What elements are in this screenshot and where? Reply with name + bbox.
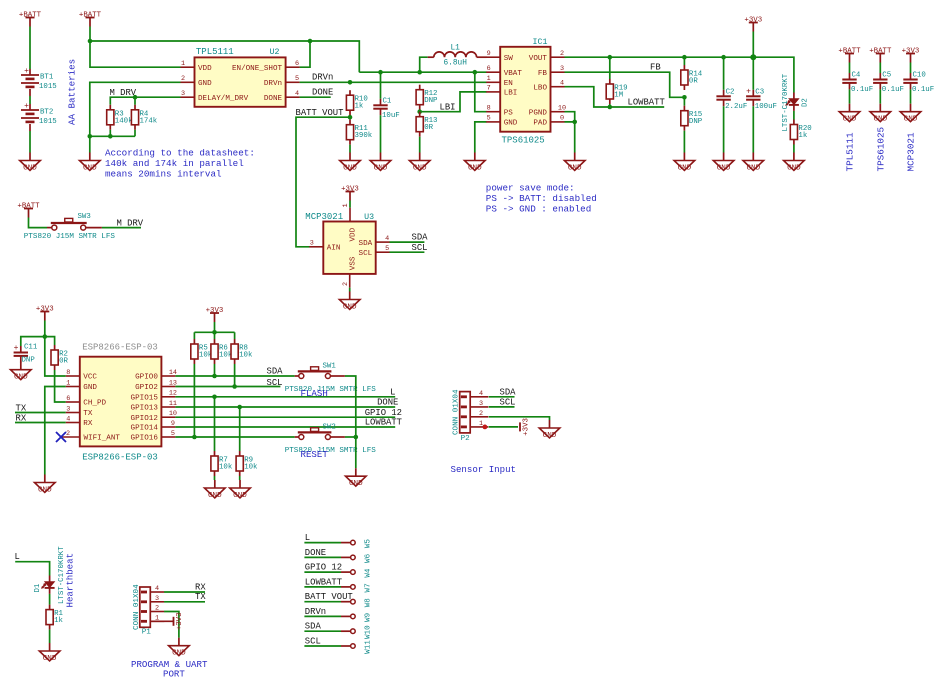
resistor R7 10k pulldown bbox=[214, 397, 216, 451]
svg-text:8: 8 bbox=[66, 369, 70, 377]
svg-text:GND: GND bbox=[717, 164, 731, 172]
svg-text:TPS61025: TPS61025 bbox=[502, 136, 545, 146]
svg-text:3: 3 bbox=[155, 595, 159, 603]
svg-text:FB: FB bbox=[650, 62, 661, 72]
ground (battery) bbox=[29, 153, 31, 161]
wire C5 to ground bbox=[879, 89, 881, 103]
svg-text:LOWBATT: LOWBATT bbox=[365, 418, 402, 428]
ground (C1) bbox=[380, 153, 382, 161]
pin 8 VCC bbox=[66, 375, 80, 377]
svg-text:GPIO 12: GPIO 12 bbox=[365, 408, 402, 418]
svg-text:BT2: BT2 bbox=[40, 109, 53, 117]
svg-text:GPIO2: GPIO2 bbox=[135, 384, 158, 392]
wire BATT_VOUT to MCP3021 AIN bbox=[296, 117, 350, 247]
svg-text:3: 3 bbox=[310, 240, 314, 248]
svg-text:M DRV: M DRV bbox=[110, 88, 137, 98]
wire C1 to ground bbox=[380, 115, 382, 152]
svg-text:0: 0 bbox=[560, 115, 564, 123]
wire VOUT +3V3 rail to LED D2 bbox=[565, 57, 794, 92]
resistor R11 390k bbox=[349, 120, 351, 125]
svg-text:CONN 01X04: CONN 01X04 bbox=[453, 389, 461, 435]
wire R19 bottom bbox=[609, 104, 611, 107]
svg-text:U2: U2 bbox=[270, 48, 280, 57]
svg-text:SW: SW bbox=[504, 55, 514, 63]
wire P1 pin1 to +3V3 bbox=[150, 620, 173, 622]
wire R1 to ground bbox=[49, 630, 51, 643]
power flag +3V3 (P2, rotated) bbox=[519, 422, 521, 431]
pin 6 EN/ONE_SHOT bbox=[286, 66, 300, 68]
svg-text:GND: GND bbox=[343, 303, 357, 311]
svg-text:0R: 0R bbox=[59, 358, 68, 366]
svg-text:GND: GND bbox=[843, 116, 857, 124]
wire C2 to ground bbox=[723, 106, 725, 152]
svg-text:U3: U3 bbox=[364, 213, 374, 222]
pin 6 CH_PD bbox=[66, 401, 80, 403]
svg-text:DONE: DONE bbox=[305, 548, 326, 558]
pin 3 FB bbox=[551, 71, 565, 73]
svg-text:SCL: SCL bbox=[412, 243, 428, 253]
svg-text:GND: GND bbox=[83, 164, 97, 172]
svg-text:GND: GND bbox=[504, 120, 518, 128]
svg-text:PAD: PAD bbox=[533, 120, 547, 128]
switch SW2 RESET bbox=[295, 436, 299, 438]
svg-text:1: 1 bbox=[479, 420, 483, 428]
svg-text:GND: GND bbox=[233, 492, 247, 500]
svg-text:L: L bbox=[305, 533, 310, 543]
capacitor C1 10uF bbox=[380, 72, 382, 99]
pin 4 RX bbox=[66, 422, 80, 424]
svg-text:GPIO14: GPIO14 bbox=[131, 425, 159, 433]
svg-text:GND: GND bbox=[678, 164, 692, 172]
svg-text:RX: RX bbox=[83, 420, 93, 428]
wire GPIO12 net bbox=[175, 416, 395, 418]
resistor R8 10k bbox=[234, 332, 236, 339]
ground (C5) bbox=[879, 104, 881, 112]
svg-text:DRVn: DRVn bbox=[305, 607, 326, 617]
svg-text:GND: GND bbox=[374, 164, 388, 172]
svg-text:LOWBATT: LOWBATT bbox=[305, 577, 342, 587]
resistor R12 DNP bbox=[419, 85, 421, 90]
wire L net to D1 bbox=[15, 562, 49, 576]
connector P1 CONN_01X04 bbox=[140, 587, 151, 627]
svg-text:Hearthbeat: Hearthbeat bbox=[65, 553, 76, 608]
svg-text:174k: 174k bbox=[140, 117, 158, 125]
wire C4 to ground bbox=[849, 89, 851, 103]
resistor R19 1M bbox=[609, 57, 611, 79]
svg-text:5: 5 bbox=[385, 245, 389, 253]
svg-text:1k: 1k bbox=[355, 103, 364, 111]
wire TX bbox=[15, 412, 66, 414]
svg-text:GPIO 12: GPIO 12 bbox=[305, 563, 342, 573]
wire P1 pin3 TX bbox=[164, 601, 205, 603]
ground (C11) bbox=[20, 362, 22, 370]
svg-text:ESP8266-ESP-03: ESP8266-ESP-03 bbox=[82, 342, 158, 352]
svg-text:W7: W7 bbox=[365, 583, 373, 592]
wire LBO LOWBATT net bbox=[565, 87, 665, 107]
svg-text:GND: GND bbox=[208, 492, 222, 500]
svg-text:L: L bbox=[390, 387, 395, 397]
svg-text:10uF: 10uF bbox=[382, 112, 400, 120]
svg-text:10k: 10k bbox=[219, 464, 233, 472]
wire R2 to CH_PD bbox=[55, 370, 66, 402]
svg-text:P2: P2 bbox=[461, 435, 471, 443]
svg-text:4: 4 bbox=[385, 235, 389, 243]
resistor R15 DNP bbox=[683, 97, 685, 105]
wire to ground (TPL GND) bbox=[89, 136, 91, 152]
pin 6 VBAT bbox=[486, 71, 500, 73]
inductor L1 6.8uH bbox=[428, 56, 434, 58]
svg-text:1015: 1015 bbox=[39, 83, 57, 91]
resistor R3 140k bbox=[109, 105, 111, 110]
svg-text:LOWBATT: LOWBATT bbox=[628, 98, 665, 108]
svg-text:7: 7 bbox=[487, 85, 491, 93]
svg-text:6.8uH: 6.8uH bbox=[444, 60, 468, 68]
junction PS riser bbox=[473, 70, 478, 75]
svg-text:MCP3021: MCP3021 bbox=[906, 132, 917, 171]
battery BT1 bbox=[29, 69, 31, 75]
svg-text:VDD: VDD bbox=[349, 227, 357, 241]
svg-text:GND: GND bbox=[172, 650, 186, 658]
ground (P1) bbox=[178, 638, 180, 646]
svg-text:W11: W11 bbox=[365, 640, 373, 654]
capacitor C11 DNP polarized bbox=[20, 346, 22, 353]
wire R8 to GPIO2 bbox=[234, 364, 236, 387]
wire R15 to ground bbox=[683, 131, 685, 153]
IC U1 TPS61025 body bbox=[500, 47, 550, 132]
wire LBI net bbox=[420, 92, 487, 112]
ground (TPL5111) bbox=[89, 153, 91, 161]
svg-text:GND: GND bbox=[83, 384, 97, 392]
svg-text:9: 9 bbox=[171, 420, 175, 428]
svg-text:PORT: PORT bbox=[163, 668, 185, 679]
svg-text:DONE: DONE bbox=[312, 87, 333, 97]
svg-text:8: 8 bbox=[487, 105, 491, 113]
ground (D1) bbox=[49, 643, 51, 651]
pin 4 DONE bbox=[286, 96, 300, 98]
pin 5 SCL bbox=[376, 251, 390, 253]
ground (C4) bbox=[849, 104, 851, 112]
svg-text:TX: TX bbox=[83, 410, 93, 418]
svg-text:Sensor Input: Sensor Input bbox=[451, 464, 517, 475]
svg-text:1: 1 bbox=[66, 379, 70, 387]
resistor R9 10k pulldown bbox=[239, 407, 241, 451]
resistor R4 174k bbox=[134, 105, 136, 110]
wire D1 to R1 bbox=[49, 594, 51, 605]
pin 1 EN bbox=[486, 81, 500, 83]
svg-text:EN/ONE_SHOT: EN/ONE_SHOT bbox=[232, 65, 283, 73]
svg-text:means 20mins interval: means 20mins interval bbox=[105, 169, 222, 180]
svg-text:GND: GND bbox=[413, 164, 427, 172]
wire P2 pin1 to +3V3 bbox=[489, 426, 518, 428]
svg-text:TPL5111: TPL5111 bbox=[196, 47, 234, 57]
resistor R2 0R bbox=[54, 345, 56, 350]
ground (C2) bbox=[723, 153, 725, 161]
IC U3 MCP3021 body bbox=[349, 208, 351, 222]
wire R4 top bbox=[134, 97, 136, 105]
svg-text:LBO: LBO bbox=[533, 84, 547, 92]
svg-text:GPIO15: GPIO15 bbox=[131, 395, 159, 403]
wire R12 bottom bbox=[419, 110, 421, 112]
svg-text:AA Batteries: AA Batteries bbox=[67, 59, 78, 125]
junction EN/ONE_SHOT on rail bbox=[308, 39, 313, 44]
junction R19/LOWBATT bbox=[608, 105, 613, 110]
svg-text:C4: C4 bbox=[852, 72, 861, 80]
wire R5 to GPIO16 bbox=[193, 364, 195, 437]
svg-text:SDA: SDA bbox=[267, 366, 284, 376]
svg-text:PS -> GND : enabled: PS -> GND : enabled bbox=[486, 204, 591, 215]
svg-text:5: 5 bbox=[295, 75, 299, 83]
junction R12/R13/LBI bbox=[417, 109, 422, 114]
wire DONE stub bbox=[300, 96, 331, 98]
wire +3V3 to pull-up rail bbox=[214, 322, 216, 332]
junction PAD bbox=[572, 120, 577, 125]
wire R6 to GPIO0 bbox=[214, 364, 216, 376]
junction L1/R12 bbox=[417, 70, 422, 75]
svg-text:ESP8266-ESP-03: ESP8266-ESP-03 bbox=[82, 452, 158, 462]
svg-text:2: 2 bbox=[560, 50, 564, 58]
svg-text:RX: RX bbox=[195, 582, 206, 592]
wire SCL row GPIO2 bbox=[175, 386, 280, 388]
resistor R5 10k bbox=[193, 332, 195, 339]
ground (R20) bbox=[793, 153, 795, 161]
svg-text:GND: GND bbox=[23, 164, 37, 172]
svg-text:4: 4 bbox=[560, 80, 564, 88]
wire riser to ground bbox=[355, 437, 357, 468]
ground (U3) bbox=[349, 292, 351, 300]
wire +3V3 to VCC bbox=[45, 337, 66, 376]
wire SW1 to GND riser bbox=[345, 376, 356, 437]
svg-text:4: 4 bbox=[66, 415, 70, 423]
svg-text:SW3: SW3 bbox=[78, 213, 91, 221]
junction R7/GPIO15 bbox=[212, 395, 217, 400]
wire FB net bbox=[565, 72, 685, 97]
wire R4 bottom to rail bbox=[134, 130, 136, 137]
svg-text:DELAY/M_DRV: DELAY/M_DRV bbox=[198, 95, 249, 103]
svg-text:GND: GND bbox=[43, 655, 57, 663]
svg-text:+: + bbox=[746, 88, 751, 97]
wire +3V3 flag to rail bbox=[752, 32, 754, 58]
svg-text:0.1uF: 0.1uF bbox=[882, 86, 904, 94]
wire R10 to R11 junction bbox=[349, 115, 351, 120]
wire +BATT to battery BT1 bbox=[29, 27, 31, 70]
junction R14/R15/FB bbox=[682, 95, 687, 100]
wire P2 pin4 SDA bbox=[489, 396, 515, 398]
svg-text:TX: TX bbox=[195, 592, 206, 602]
wire R9 to ground bbox=[239, 476, 241, 480]
wire GND pin5 to ground bbox=[475, 122, 487, 153]
svg-text:W5: W5 bbox=[365, 539, 373, 549]
ground (C10) bbox=[910, 104, 912, 112]
svg-text:C10: C10 bbox=[913, 72, 926, 80]
switch SW1 FLASH bbox=[295, 375, 299, 377]
wire R11 to ground bbox=[349, 145, 351, 153]
ground (PGND) bbox=[574, 153, 576, 161]
svg-text:GND: GND bbox=[38, 486, 52, 494]
junction R19 top bbox=[608, 55, 613, 60]
wire D2 to R20 bbox=[793, 111, 795, 120]
svg-text:140k and 174k in parallel: 140k and 174k in parallel bbox=[105, 158, 244, 169]
junction pull-up rail bbox=[212, 330, 217, 335]
capacitor C4 0.1uF bbox=[849, 73, 851, 80]
svg-text:DNP: DNP bbox=[689, 118, 703, 126]
switch SW3 PTS820 bbox=[47, 227, 52, 229]
junction C2 top bbox=[721, 55, 726, 60]
resistor R14 0R bbox=[683, 57, 685, 65]
junction R9/GPIO13 bbox=[237, 405, 242, 410]
ground (R11) bbox=[349, 153, 351, 161]
junction P2 pin1 bbox=[483, 425, 488, 430]
svg-text:power save mode:: power save mode: bbox=[486, 183, 575, 194]
svg-text:0R: 0R bbox=[689, 78, 698, 86]
wire GPIO16 row to SW2 bbox=[175, 436, 294, 438]
svg-text:3: 3 bbox=[66, 405, 70, 413]
svg-text:1: 1 bbox=[342, 203, 350, 207]
wire BT2 to ground bbox=[29, 131, 31, 153]
wire P1 pin4 RX bbox=[164, 591, 205, 593]
svg-text:PTS820 J15M SMTR LFS: PTS820 J15M SMTR LFS bbox=[285, 386, 377, 394]
svg-text:C1: C1 bbox=[383, 98, 392, 106]
svg-text:0.1uF: 0.1uF bbox=[851, 86, 873, 94]
svg-text:6: 6 bbox=[66, 395, 70, 403]
svg-text:+: + bbox=[24, 67, 29, 76]
wire +3V3 down bbox=[44, 321, 46, 337]
pin 3 AIN bbox=[309, 246, 323, 248]
resistor R20 1k bbox=[793, 120, 795, 125]
ground (R9) bbox=[239, 480, 241, 488]
junction R8/GPIO2 bbox=[232, 384, 237, 389]
svg-text:PTS820 J15M SMTR LFS: PTS820 J15M SMTR LFS bbox=[285, 447, 377, 455]
svg-text:4: 4 bbox=[155, 585, 159, 593]
junction +BATT rail / VDD bbox=[88, 39, 93, 44]
svg-text:RESET: RESET bbox=[301, 449, 329, 460]
svg-text:GND: GND bbox=[198, 80, 212, 88]
svg-text:GND: GND bbox=[746, 164, 760, 172]
svg-text:DONE: DONE bbox=[377, 398, 398, 408]
pin 3 TX bbox=[66, 412, 80, 414]
wire P2 pin2 to ground bbox=[489, 417, 550, 420]
svg-text:GND: GND bbox=[349, 480, 363, 488]
ground (SW1/SW2) bbox=[355, 468, 357, 476]
wire DELAY/M_DRV pin3 to R3 R4 bbox=[110, 97, 180, 105]
svg-text:5: 5 bbox=[487, 115, 491, 123]
svg-text:SDA: SDA bbox=[500, 387, 517, 397]
svg-text:390k: 390k bbox=[355, 132, 373, 140]
wire to R2 bbox=[45, 337, 55, 345]
wire +3V3 to C10 bbox=[910, 63, 912, 74]
wire +BATT to C4 bbox=[849, 63, 851, 74]
resistor R10 1k bbox=[349, 90, 351, 95]
ground (R13) bbox=[419, 153, 421, 161]
capacitor C10 0.1uF bbox=[910, 73, 912, 80]
svg-text:6: 6 bbox=[487, 65, 491, 73]
svg-text:C5: C5 bbox=[882, 72, 891, 80]
capacitor C2 2.2uF bbox=[723, 57, 725, 90]
wire PS riser to pin 8 bbox=[475, 72, 487, 112]
svg-text:DNP: DNP bbox=[424, 97, 438, 105]
svg-text:VOUT: VOUT bbox=[529, 55, 548, 63]
svg-text:RX: RX bbox=[16, 413, 27, 423]
pin 5 DRVn bbox=[286, 81, 300, 83]
pin 10 GPIO12 bbox=[161, 416, 175, 418]
wire bottom rail R3 R4 to GND bbox=[90, 135, 135, 137]
svg-text:MCP3021: MCP3021 bbox=[305, 212, 343, 222]
wire SDA row GPIO0 to SW1 bbox=[175, 375, 294, 377]
pin 5 GPIO16 bbox=[161, 436, 175, 438]
pin 11 GPIO13 bbox=[161, 406, 175, 408]
svg-text:SCL: SCL bbox=[359, 250, 373, 258]
junction +3V3 ESP bbox=[43, 334, 48, 339]
wire +BATT to C5 bbox=[879, 63, 881, 74]
svg-text:EN: EN bbox=[504, 80, 513, 88]
svg-text:CONN 01X04: CONN 01X04 bbox=[133, 584, 141, 630]
module U1 ESP8266-ESP-03 body bbox=[80, 357, 162, 447]
connector P2 CONN_01X04 bbox=[460, 392, 471, 433]
svg-text:C3: C3 bbox=[755, 89, 764, 97]
svg-text:2: 2 bbox=[479, 410, 483, 418]
junction +3V3/C3 bbox=[750, 54, 756, 60]
wire to C11 bbox=[21, 337, 45, 346]
svg-text:M DRV: M DRV bbox=[117, 218, 144, 228]
junction R14 top bbox=[682, 55, 687, 60]
svg-text:DONE: DONE bbox=[264, 95, 283, 103]
wire +BATT down to rail bbox=[89, 27, 91, 42]
svg-text:PS -> BATT: disabled: PS -> BATT: disabled bbox=[486, 193, 597, 204]
svg-text:AIN: AIN bbox=[327, 245, 341, 253]
LED D1 LTST-C170KRKT bbox=[49, 576, 51, 582]
wire VDD U2 pin1 bbox=[90, 41, 181, 67]
svg-text:6: 6 bbox=[295, 60, 299, 68]
power flag +3V3 (P1, rotated) bbox=[173, 617, 175, 626]
wire GND U2 pin2 down bbox=[90, 82, 181, 136]
ground (ESP) bbox=[44, 475, 46, 483]
pin 5 GND bbox=[486, 121, 500, 123]
svg-text:GND: GND bbox=[343, 164, 357, 172]
svg-text:TPS61025: TPS61025 bbox=[875, 127, 886, 172]
wire R7 to ground bbox=[214, 476, 216, 480]
junction DRVn / R10 bbox=[348, 80, 353, 85]
svg-text:C2: C2 bbox=[726, 89, 735, 97]
svg-text:TX: TX bbox=[16, 403, 27, 413]
svg-text:BT1: BT1 bbox=[40, 74, 54, 82]
svg-text:LTST-C170KRKT: LTST-C170KRKT bbox=[782, 73, 790, 131]
LED D2 LTST-C170KRKT bbox=[793, 93, 795, 99]
wire C10 to ground bbox=[910, 89, 912, 103]
pin 10 PGND bbox=[551, 111, 565, 113]
svg-text:CH_PD: CH_PD bbox=[83, 400, 106, 408]
wire GPIO14 LOWBATT net bbox=[175, 426, 395, 428]
svg-text:FB: FB bbox=[538, 70, 548, 78]
pin 2 VOUT bbox=[551, 56, 565, 58]
ground (R15) bbox=[683, 153, 685, 161]
wire VSS to ground bbox=[349, 288, 351, 292]
junction R4 top bbox=[133, 95, 138, 100]
wire +BATT to SW3 bbox=[29, 218, 48, 228]
svg-text:BATT VOUT: BATT VOUT bbox=[296, 108, 344, 118]
svg-text:C11: C11 bbox=[24, 344, 38, 352]
pin 2 GND bbox=[181, 81, 195, 83]
pin 13 GPIO2 bbox=[161, 386, 175, 388]
junction BATT_VOUT bbox=[348, 115, 353, 120]
svg-text:1k: 1k bbox=[798, 132, 807, 140]
svg-text:2.2uF: 2.2uF bbox=[725, 103, 747, 111]
svg-text:+3V3: +3V3 bbox=[176, 612, 184, 630]
svg-text:GND: GND bbox=[543, 432, 557, 440]
svg-text:9: 9 bbox=[487, 50, 491, 58]
svg-text:TPL5111: TPL5111 bbox=[845, 132, 856, 171]
svg-text:1: 1 bbox=[181, 60, 185, 68]
svg-text:PS: PS bbox=[504, 109, 514, 117]
wire SDA stub bbox=[390, 241, 425, 243]
